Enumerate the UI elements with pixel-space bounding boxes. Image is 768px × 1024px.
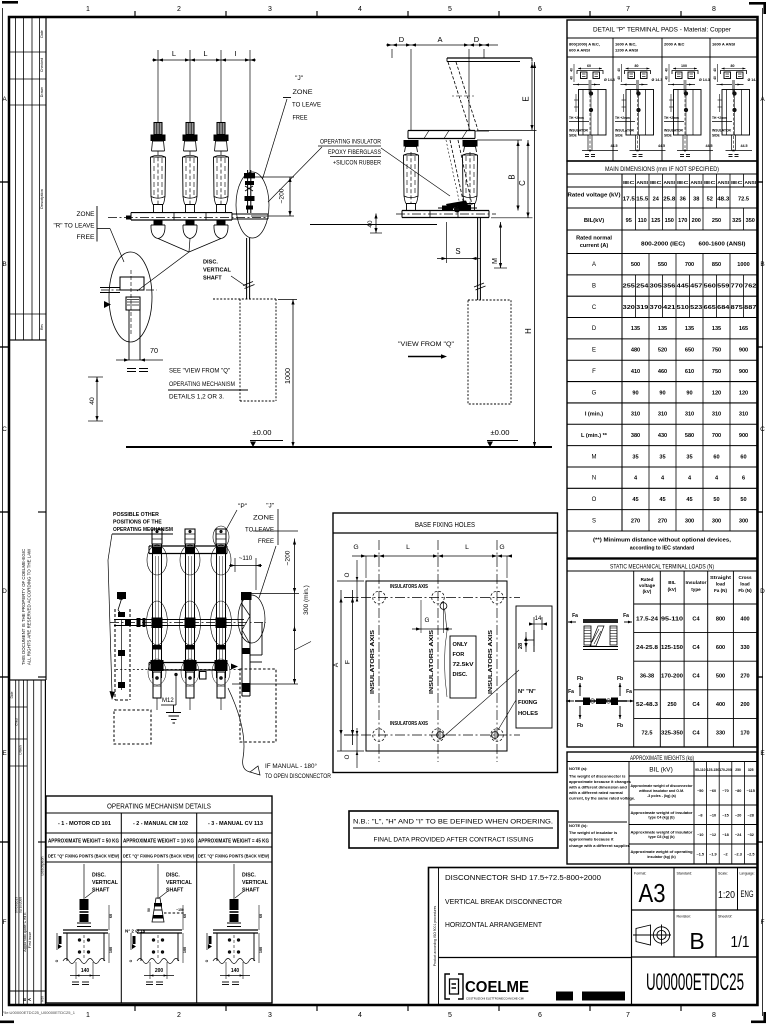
svg-text:1000: 1000 — [737, 262, 749, 268]
svg-text:665: 665 — [704, 305, 716, 311]
svg-text:1000: 1000 — [283, 368, 292, 384]
svg-text:ZONE: ZONE — [293, 89, 313, 96]
svg-text:BIL (kV): BIL (kV) — [649, 767, 673, 774]
svg-text:"VIEW FROM "Q": "VIEW FROM "Q" — [398, 341, 455, 348]
svg-text:~115: ~115 — [747, 789, 755, 793]
svg-text:DISC.: DISC. — [242, 873, 256, 879]
svg-text:900: 900 — [739, 369, 748, 375]
plan view small box on rail — [200, 672, 207, 680]
svg-text:72.5: 72.5 — [642, 731, 653, 737]
svg-text:600-1600 (ANSI): 600-1600 (ANSI) — [699, 242, 746, 248]
svg-text:APPROXIMATE WEIGHT = 10 KG: APPROXIMATE WEIGHT = 10 KG — [123, 839, 194, 845]
svg-text:H: H — [524, 328, 533, 334]
svg-text:Rated voltage (kV): Rated voltage (kV) — [568, 193, 621, 199]
side view insulator right — [463, 140, 478, 211]
svg-text:INSULATORS AXIS: INSULATORS AXIS — [390, 584, 428, 590]
svg-text:C: C — [518, 180, 527, 186]
svg-text:A: A — [760, 96, 765, 103]
svg-text:type C8 (kg) (b): type C8 (kg) (b) — [648, 835, 675, 839]
svg-text:35: 35 — [686, 454, 692, 460]
svg-text:C: C — [2, 426, 7, 433]
svg-text:Fa: Fa — [572, 613, 578, 619]
svg-text:44.5: 44.5 — [706, 144, 713, 148]
svg-text:~8: ~8 — [698, 813, 702, 817]
plan view operating insulator assembly — [238, 592, 265, 696]
base fixing dim G small — [412, 600, 452, 633]
svg-text:POSSIBLE OTHER: POSSIBLE OTHER — [113, 512, 159, 518]
svg-text:900: 900 — [739, 348, 748, 354]
svg-text:C4: C4 — [692, 674, 700, 680]
svg-text:380: 380 — [631, 433, 640, 439]
mechanism detail CV 113 — [205, 864, 269, 985]
svg-text:"P": "P" — [238, 503, 248, 510]
svg-text:B: B — [592, 284, 596, 290]
svg-text:44.5: 44.5 — [741, 144, 748, 148]
svg-text:N: N — [592, 476, 596, 482]
svg-text:OPERATING INSULATOR: OPERATING INSULATOR — [320, 139, 381, 146]
svg-text:255: 255 — [623, 284, 635, 290]
svg-text:70: 70 — [150, 346, 158, 355]
svg-text:G: G — [499, 544, 504, 551]
svg-text:300: 300 — [712, 518, 721, 524]
redaction bars — [556, 992, 625, 1001]
svg-text:current (A): current (A) — [580, 243, 609, 249]
side view dim S — [437, 222, 480, 263]
svg-text:VERTICAL: VERTICAL — [92, 880, 119, 886]
svg-text:~110: ~110 — [239, 555, 253, 562]
svg-text:Fb: Fb — [617, 676, 623, 682]
approximate weights BIL columns — [649, 762, 753, 865]
svg-text:current, by the same rated vol: current, by the same rated voltage. — [569, 796, 635, 801]
svg-text:~70: ~70 — [722, 789, 728, 793]
svg-text:52: 52 — [707, 197, 713, 203]
svg-text:Revision:: Revision: — [677, 915, 692, 919]
svg-text:L: L — [465, 544, 469, 551]
svg-text:Approximate weight of insulato: Approximate weight of insulator — [631, 811, 694, 815]
left ruler ticks — [0, 182, 46, 842]
svg-text:VERTICAL: VERTICAL — [242, 880, 269, 886]
svg-text:80: 80 — [731, 64, 735, 68]
side view dimension line D A D — [386, 35, 498, 47]
bottom ruler ticks — [135, 1005, 681, 1011]
svg-text:750: 750 — [712, 369, 721, 375]
svg-text:change with a different suppli: change with a different supplier. — [569, 843, 630, 848]
svg-text:M: M — [490, 258, 499, 264]
svg-text:DETAILS 1,2 OR 3.: DETAILS 1,2 OR 3. — [169, 394, 224, 401]
label if manual 180 — [265, 764, 332, 780]
svg-text:(kV): (kV) — [643, 589, 652, 594]
front view dim 40 — [88, 377, 103, 421]
svg-text:C4: C4 — [692, 616, 700, 622]
terminal pad drawing 3 — [665, 64, 710, 148]
svg-text:887: 887 — [744, 305, 756, 311]
side view extension lines — [392, 49, 484, 130]
svg-text:700: 700 — [685, 262, 694, 268]
detail P column headers — [569, 42, 735, 53]
svg-text:48.3: 48.3 — [717, 197, 729, 203]
svg-text:according to IEC standard: according to IEC standard — [630, 546, 695, 552]
svg-text:INSULATORS AXIS: INSULATORS AXIS — [370, 629, 376, 694]
svg-text:O: O — [592, 497, 597, 503]
side view base frame — [396, 211, 496, 218]
svg-text:N° "N": N° "N" — [518, 689, 536, 695]
svg-text:SHAFT: SHAFT — [203, 276, 222, 282]
svg-text:125-150: 125-150 — [707, 768, 720, 772]
svg-text:7: 7 — [626, 6, 630, 13]
svg-text:IF MANUAL - 180°: IF MANUAL - 180° — [265, 764, 318, 770]
svg-text:STATIC MECHANICAL TERMINAL LOA: STATIC MECHANICAL TERMINAL LOADS (N) — [610, 564, 714, 571]
svg-text:480: 480 — [631, 348, 640, 354]
svg-text:B: B — [508, 174, 517, 179]
svg-text:140: 140 — [231, 968, 240, 974]
svg-text:IEC: IEC — [677, 180, 690, 185]
svg-text:A: A — [437, 35, 442, 44]
svg-text:INSULATORS AXIS: INSULATORS AXIS — [390, 721, 428, 727]
svg-text:D: D — [474, 35, 480, 44]
svg-text:VERTICAL BREAK DISCONNECTOR: VERTICAL BREAK DISCONNECTOR — [445, 897, 562, 906]
svg-text:95: 95 — [626, 218, 632, 224]
main dimensions rated current row — [576, 236, 746, 250]
svg-text:~10: ~10 — [697, 833, 703, 837]
svg-text:Ø 14.3: Ø 14.3 — [652, 78, 663, 82]
base fixing dim A — [333, 581, 364, 751]
svg-text:SIDE: SIDE — [569, 134, 577, 138]
svg-text:72.5: 72.5 — [738, 197, 749, 203]
base frame outline (plan) — [366, 581, 507, 751]
svg-text:60: 60 — [109, 914, 113, 918]
plan view label P — [213, 503, 248, 548]
main dimensions footnote — [593, 538, 732, 552]
svg-text:8: 8 — [712, 1012, 716, 1019]
svg-text:95-110: 95-110 — [695, 768, 705, 772]
svg-text:523: 523 — [690, 305, 702, 311]
svg-text:45: 45 — [632, 497, 638, 503]
svg-text:6: 6 — [538, 6, 542, 13]
plan view left mechanism position — [115, 592, 130, 700]
svg-text:C: C — [760, 426, 765, 433]
svg-text:IEC: IEC — [704, 180, 717, 185]
note see view from Q — [168, 368, 248, 401]
svg-text:Standard:: Standard: — [677, 872, 693, 876]
insulators axis labels vertical — [370, 629, 494, 694]
svg-text:40: 40 — [570, 76, 574, 80]
svg-text:305: 305 — [650, 284, 662, 290]
svg-text:FIXING: FIXING — [518, 700, 538, 706]
svg-text:410: 410 — [631, 369, 640, 375]
svg-text:28: 28 — [518, 643, 524, 649]
svg-text:DISCONNECTOR SHD 17.5÷72.5-800: DISCONNECTOR SHD 17.5÷72.5-800÷2000 — [445, 873, 601, 882]
plan view label possible positions — [108, 512, 173, 700]
svg-text:14: 14 — [535, 616, 542, 622]
svg-text:35: 35 — [632, 454, 638, 460]
svg-text:INSULATOR: INSULATOR — [664, 129, 684, 133]
svg-text:580: 580 — [685, 433, 694, 439]
front view insulator pole 1 — [151, 123, 166, 213]
svg-text:25.8: 25.8 — [663, 197, 675, 203]
svg-text:A: A — [27, 998, 32, 1001]
svg-text:45: 45 — [686, 497, 692, 503]
mechanism detail CD 101 — [55, 864, 119, 985]
scale cell — [718, 872, 735, 902]
svg-text:Straight: Straight — [710, 575, 732, 580]
svg-text:POSITIONS OF THE: POSITIONS OF THE — [113, 520, 162, 526]
svg-text:100: 100 — [109, 947, 113, 953]
static loads table — [567, 559, 757, 747]
svg-text:SEE "VIEW FROM "Q": SEE "VIEW FROM "Q" — [169, 368, 230, 375]
svg-text:O: O — [344, 572, 351, 577]
svg-text:FINAL DATA PROVIDED AFTER CONT: FINAL DATA PROVIDED AFTER CONTRACT ISSUI… — [374, 837, 534, 844]
svg-text:THIS DOCUMENT IS THE PROPERTY: THIS DOCUMENT IS THE PROPERTY OF COELME-… — [21, 549, 26, 665]
svg-text:5: 5 — [448, 1012, 452, 1019]
terminal pad drawing 1 — [570, 64, 615, 148]
svg-text:A: A — [592, 262, 596, 268]
svg-text:DISC.: DISC. — [203, 260, 218, 266]
svg-text:INSULATORS AXIS: INSULATORS AXIS — [488, 629, 494, 694]
svg-text:Date: Date — [40, 30, 44, 38]
svg-text:G: G — [592, 390, 597, 396]
svg-text:~80: ~80 — [735, 789, 741, 793]
svg-text:S: S — [455, 247, 460, 256]
svg-text:INSULATOR: INSULATOR — [615, 129, 635, 133]
sheet cell — [718, 915, 750, 952]
label disc vertical shaft (front) — [203, 260, 247, 288]
svg-text:500: 500 — [631, 262, 640, 268]
plan view M12 earthing — [161, 673, 181, 723]
svg-text:TO LEAVE: TO LEAVE — [245, 527, 274, 534]
svg-text:ANSI: ANSI — [637, 180, 649, 185]
svg-text:~32: ~32 — [747, 833, 753, 837]
svg-text:L: L — [406, 544, 410, 551]
plan view lower dashed box left — [114, 710, 151, 744]
operating mechanism headers — [48, 821, 269, 859]
svg-text:E: E — [522, 96, 531, 101]
svg-text:TO OPEN DISCONNECTOR: TO OPEN DISCONNECTOR — [265, 774, 332, 780]
svg-text:1200 A ANSI: 1200 A ANSI — [615, 48, 638, 53]
plan view dim ~110 — [229, 555, 262, 590]
svg-text:356: 356 — [663, 284, 675, 290]
svg-text:Description: Description — [39, 189, 44, 209]
side view dim H — [524, 62, 536, 447]
svg-text:A: A — [2, 96, 7, 103]
svg-text:Ø 14.3: Ø 14.3 — [699, 78, 710, 82]
svg-text:ANSI: ANSI — [745, 180, 757, 185]
svg-text:330: 330 — [716, 731, 725, 737]
svg-text:254: 254 — [636, 284, 649, 290]
front view leader to detail circle — [137, 239, 221, 292]
svg-text:C: C — [592, 305, 597, 311]
static loads column headers — [639, 575, 752, 594]
front view vertical shaft — [243, 238, 255, 299]
svg-text:S: S — [592, 518, 596, 524]
front view dim 70 — [116, 346, 163, 372]
svg-text:SHAFT: SHAFT — [166, 888, 184, 894]
svg-text:load: load — [740, 582, 750, 587]
svg-text:850: 850 — [712, 262, 721, 268]
side view crank assembly — [438, 201, 477, 213]
detail P terminal pads table — [567, 20, 757, 161]
language cell — [740, 872, 755, 900]
plan view top rail — [149, 546, 227, 554]
side view mechanism dashed box — [468, 300, 511, 404]
svg-text:559: 559 — [717, 284, 729, 290]
svg-text:1: 1 — [86, 6, 90, 13]
plan view bottom rail — [116, 663, 240, 671]
side view vertical shaft — [474, 218, 486, 300]
svg-text:Format:: Format: — [634, 872, 646, 876]
svg-text:N° 2 Ø 18: N° 2 Ø 18 — [125, 929, 146, 934]
revision strip labels — [10, 691, 45, 1001]
svg-text:Fb: Fb — [577, 723, 583, 729]
svg-text:135: 135 — [631, 326, 640, 332]
svg-text:Fb: Fb — [577, 676, 583, 682]
terminal pad drawing 2 — [617, 64, 662, 148]
svg-text:I (min.): I (min.) — [585, 412, 603, 418]
svg-text:319: 319 — [636, 305, 648, 311]
svg-text:ENG: ENG — [741, 889, 754, 899]
plan view pole 2 — [180, 529, 201, 710]
coelme logo — [445, 974, 529, 1001]
svg-text:TH +2mm: TH +2mm — [615, 116, 630, 120]
svg-text:40: 40 — [665, 76, 669, 80]
svg-text:C4: C4 — [692, 702, 700, 708]
svg-text:DET. "Q" FIXING POINTS (BACK V: DET. "Q" FIXING POINTS (BACK VIEW) — [198, 854, 269, 859]
svg-text:460: 460 — [658, 369, 667, 375]
svg-text:3: 3 — [268, 6, 272, 13]
svg-text:40: 40 — [713, 68, 717, 72]
svg-text:Scale:: Scale: — [718, 872, 728, 876]
svg-text:310: 310 — [631, 412, 640, 418]
approximate weights table — [567, 752, 757, 864]
base fixing dim O top — [344, 560, 358, 602]
svg-text:40: 40 — [367, 220, 374, 228]
svg-text:430: 430 — [658, 433, 667, 439]
svg-text:File:U00000ETDC25_U00000ETDC25: File:U00000ETDC25_U00000ETDC25_1 — [2, 1010, 76, 1015]
svg-text:~28: ~28 — [747, 813, 753, 817]
svg-text:40: 40 — [617, 68, 621, 72]
svg-text:±0.00: ±0.00 — [491, 428, 510, 437]
svg-text:D: D — [399, 35, 405, 44]
svg-text:~60: ~60 — [710, 789, 716, 793]
standard cell — [677, 872, 693, 876]
plan view dim ~200 — [247, 531, 299, 594]
svg-text:L: L — [172, 49, 176, 58]
svg-text:~20: ~20 — [735, 813, 741, 817]
svg-text:36: 36 — [680, 197, 686, 203]
svg-text:Approximate weight of insulato: Approximate weight of insulator — [631, 830, 694, 834]
svg-text:36-38: 36-38 — [640, 674, 654, 680]
projection symbol — [633, 925, 671, 946]
side view dim M — [490, 222, 507, 268]
svg-text:900: 900 — [739, 433, 748, 439]
svg-text:1:20: 1:20 — [718, 889, 735, 901]
svg-text:Date: Date — [10, 691, 14, 698]
svg-text:IEC: IEC — [623, 180, 636, 185]
svg-text:insulator (kg) (b): insulator (kg) (b) — [647, 855, 676, 859]
svg-text:2: 2 — [177, 1012, 181, 1019]
svg-text:6: 6 — [742, 476, 745, 482]
svg-text:1600 A IEC,: 1600 A IEC, — [615, 42, 637, 47]
svg-text:Fa (N): Fa (N) — [714, 588, 727, 593]
side view dim E — [477, 62, 537, 131]
svg-text:without insulator and O.M.: without insulator and O.M. — [638, 789, 684, 793]
side view level mark 0.00 — [487, 428, 518, 447]
svg-text:100: 100 — [259, 947, 263, 953]
svg-text:125: 125 — [651, 218, 660, 224]
svg-text:170-200: 170-200 — [661, 674, 683, 680]
svg-text:U00000ETDC25: U00000ETDC25 — [646, 969, 744, 996]
svg-text:C4: C4 — [692, 731, 700, 737]
svg-text:G: G — [425, 617, 430, 624]
svg-text:FREE: FREE — [77, 234, 95, 241]
svg-text:Description: Description — [41, 857, 45, 876]
svg-text:The weight of disconnector is: The weight of disconnector is — [569, 774, 626, 779]
svg-text:5: 5 — [448, 6, 452, 13]
front view dim 1000 — [278, 300, 297, 448]
svg-text:MOTOR CD 101: MOTOR CD 101 — [69, 821, 111, 827]
svg-text:load: load — [716, 582, 726, 587]
svg-text:120: 120 — [712, 390, 721, 396]
svg-text:ZONE: ZONE — [253, 515, 274, 522]
svg-text:The weight of insulator is: The weight of insulator is — [569, 830, 618, 835]
static loads diagram cross — [566, 676, 634, 729]
svg-text:770: 770 — [731, 284, 743, 290]
svg-text:560: 560 — [704, 284, 716, 290]
svg-text:(kV): (kV) — [668, 587, 677, 592]
svg-text:HORIZONTAL ARRANGEMENT: HORIZONTAL ARRANGEMENT — [445, 920, 542, 929]
svg-text:Drawn: Drawn — [40, 87, 44, 97]
main dimensions rated voltage row — [568, 187, 749, 208]
svg-text:F: F — [592, 369, 596, 375]
title text — [445, 873, 601, 929]
svg-text:300 (min.): 300 (min.) — [303, 585, 310, 615]
property notice — [9, 340, 46, 680]
svg-text:FREE: FREE — [293, 115, 308, 122]
revision cell — [677, 915, 705, 955]
side view dim B — [477, 140, 522, 211]
svg-text:~15: ~15 — [722, 813, 728, 817]
side view open blade top plate — [447, 58, 532, 62]
svg-text:610: 610 — [685, 369, 694, 375]
svg-text:330: 330 — [740, 645, 749, 651]
svg-text:24: 24 — [653, 197, 660, 203]
plan view label J zone — [245, 503, 278, 599]
svg-text:4: 4 — [358, 6, 362, 13]
svg-text:1600 A ANSI: 1600 A ANSI — [712, 42, 735, 47]
svg-text:ALL RIGHTS ARE RESERVED ACCORD: ALL RIGHTS ARE RESERVED ACCORDING TO THE… — [27, 548, 32, 665]
svg-text:500: 500 — [716, 674, 725, 680]
svg-text:Ø 14.3: Ø 14.3 — [748, 78, 759, 82]
svg-text:170-200: 170-200 — [719, 768, 732, 772]
svg-text:VERTICAL: VERTICAL — [166, 880, 193, 886]
svg-text:COELME: COELME — [465, 979, 529, 996]
svg-text:F: F — [345, 660, 352, 664]
svg-text:EPOXY FIBERGLASS: EPOXY FIBERGLASS — [328, 149, 381, 156]
front view extension lines — [158, 50, 250, 176]
svg-text:50: 50 — [740, 497, 746, 503]
top ruler ticks — [135, 11, 681, 17]
svg-text:BIL: BIL — [668, 580, 676, 585]
plan view operating crossbar — [110, 618, 266, 627]
svg-text:1/1: 1/1 — [731, 934, 750, 951]
operating mechanism details table — [46, 796, 272, 1003]
svg-text:DET. "Q" FIXING POINTS (BACK V: DET. "Q" FIXING POINTS (BACK VIEW) — [48, 854, 119, 859]
svg-text:370: 370 — [650, 305, 662, 311]
svg-text:457: 457 — [690, 284, 702, 290]
svg-text:40: 40 — [665, 68, 669, 72]
svg-text:TO LEAVE: TO LEAVE — [292, 102, 321, 109]
side view dim C — [491, 140, 533, 218]
svg-text:HOLES: HOLES — [518, 711, 538, 717]
